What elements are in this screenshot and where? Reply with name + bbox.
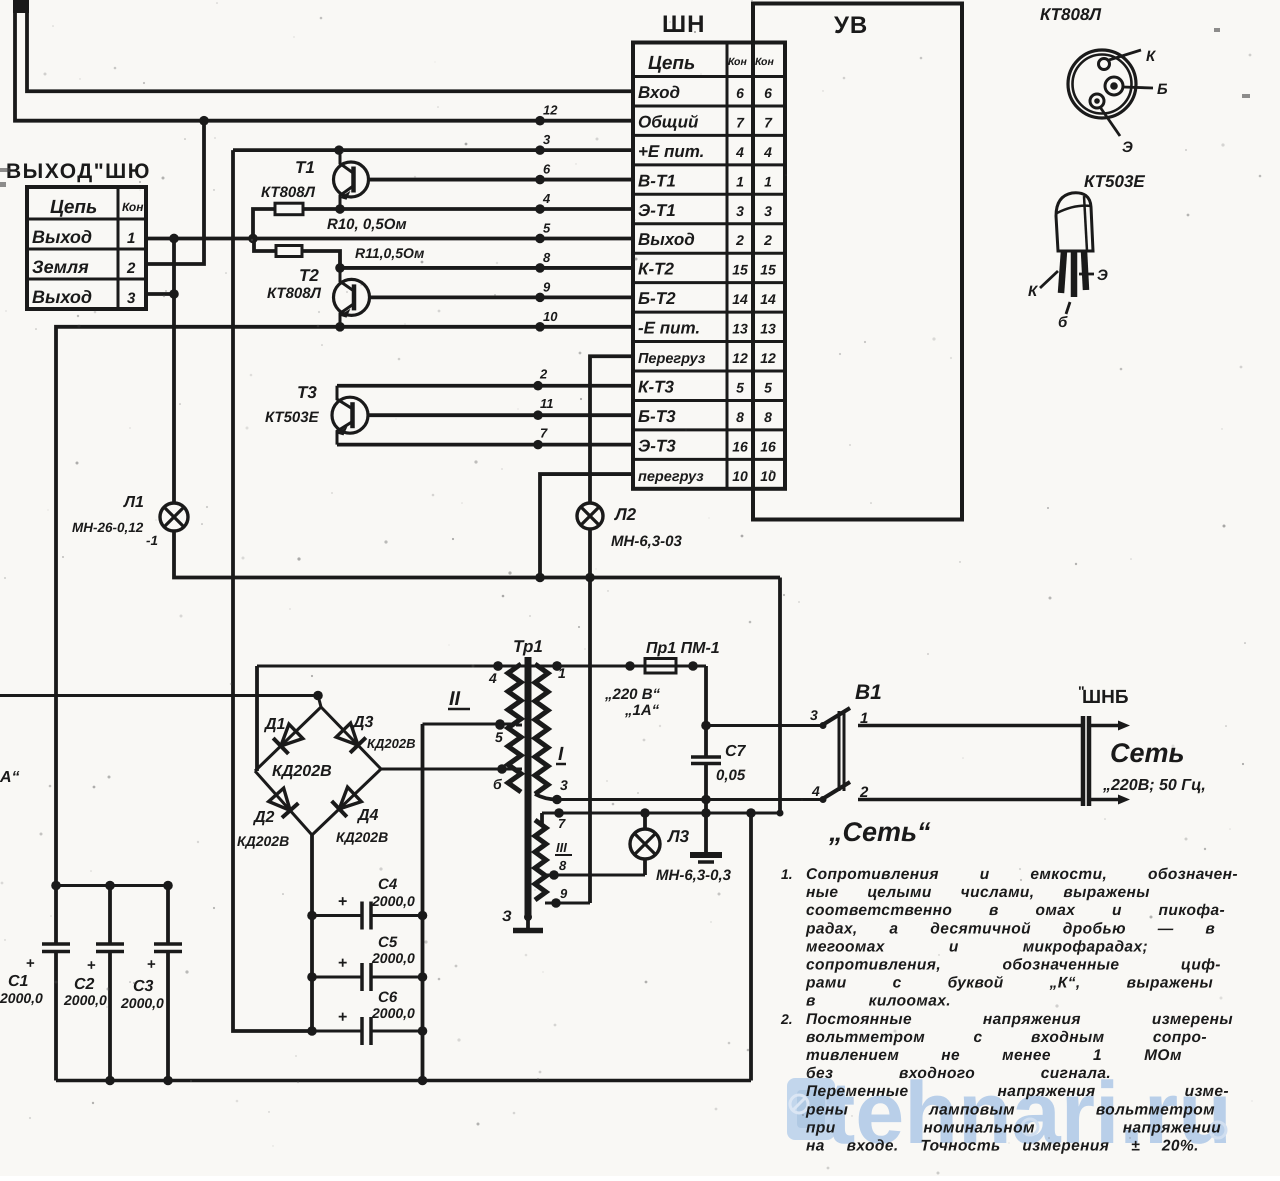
svg-text:8: 8 [764, 409, 772, 425]
svg-text:Э: Э [1097, 267, 1108, 284]
svg-text:Выход: Выход [32, 227, 92, 247]
svg-text:З: З [502, 908, 512, 925]
svg-text:9: 9 [543, 279, 551, 294]
svg-text:4: 4 [735, 144, 744, 160]
svg-text:Общий: Общий [638, 112, 699, 131]
svg-text:„220В; 50 Гц,: „220В; 50 Гц, [1102, 777, 1206, 794]
svg-text:С4: С4 [378, 876, 398, 893]
svg-text:Цепь: Цепь [648, 53, 695, 74]
svg-text:5: 5 [543, 220, 551, 235]
svg-text:Выход: Выход [32, 287, 92, 307]
svg-text:К-Т2: К-Т2 [638, 260, 674, 279]
svg-text:А“: А“ [0, 769, 20, 786]
svg-text:С2: С2 [74, 976, 95, 993]
svg-text:КД202В: КД202В [336, 829, 388, 845]
svg-text:+: + [338, 955, 347, 972]
svg-text:Э: Э [1122, 139, 1133, 156]
svg-text:6: 6 [764, 85, 772, 101]
svg-text:12: 12 [760, 350, 776, 366]
svg-text:I: I [558, 744, 564, 765]
svg-text:„1А“: „1А“ [624, 702, 660, 719]
svg-text:1.: 1. [781, 866, 793, 882]
svg-text:1: 1 [127, 230, 135, 247]
svg-text:Э-Т1: Э-Т1 [638, 201, 676, 220]
svg-text:R11,0,5Ом: R11,0,5Ом [355, 245, 425, 261]
svg-text:2000,0: 2000,0 [371, 950, 415, 966]
svg-text:7: 7 [540, 426, 548, 441]
svg-text:Постоянные напряжения измерены: Постоянные напряжения измерены [806, 1011, 1233, 1028]
svg-text:2.: 2. [780, 1011, 793, 1027]
svg-text:2000,0: 2000,0 [63, 992, 107, 1008]
svg-text:": " [1078, 683, 1085, 699]
svg-text:Кон: Кон [755, 56, 774, 68]
svg-text:3: 3 [736, 203, 744, 219]
svg-text:3: 3 [127, 290, 136, 307]
svg-text:16: 16 [732, 438, 748, 454]
svg-text:Кон: Кон [122, 200, 144, 214]
svg-text:+: + [338, 1009, 347, 1026]
svg-text:Перегруз: Перегруз [638, 351, 706, 367]
svg-text:Э-Т3: Э-Т3 [638, 436, 676, 455]
svg-text:Кон: Кон [728, 56, 747, 68]
svg-text:В-Т1: В-Т1 [638, 171, 676, 190]
svg-text:сопротивления, обозначенные ци: сопротивления, обозначенные циф- [806, 957, 1221, 974]
svg-text:-1: -1 [146, 533, 158, 548]
svg-text:7: 7 [764, 114, 773, 130]
svg-text:КТ503Е: КТ503Е [265, 409, 320, 426]
svg-text:Д2: Д2 [252, 809, 275, 826]
svg-text:КТ808Л: КТ808Л [261, 184, 316, 201]
svg-text:III: III [556, 840, 567, 855]
svg-text:ВЫХОД"ШЮ: ВЫХОД"ШЮ [6, 160, 151, 183]
svg-text:15: 15 [732, 262, 748, 278]
svg-text:4: 4 [488, 670, 497, 686]
svg-text:1: 1 [764, 173, 772, 189]
svg-text:при номинальном напряжении: при номинальном напряжении [806, 1119, 1221, 1136]
svg-text:12: 12 [543, 103, 558, 118]
svg-text:3: 3 [560, 777, 568, 793]
svg-text:14: 14 [760, 291, 776, 307]
svg-text:Д4: Д4 [356, 807, 379, 824]
svg-text:15: 15 [760, 262, 776, 278]
svg-text:Т1: Т1 [295, 158, 315, 177]
svg-text:6: 6 [543, 162, 551, 177]
svg-text:ШН: ШН [662, 11, 705, 38]
svg-text:2000,0: 2000,0 [371, 893, 415, 909]
svg-text:на входе. Точность измерения ±: на входе. Точность измерения ± 20%. [806, 1138, 1199, 1155]
svg-text:2: 2 [539, 367, 548, 382]
svg-text:2: 2 [735, 232, 744, 248]
svg-text:+Е пит.: +Е пит. [638, 142, 704, 161]
svg-text:КД202В: КД202В [237, 833, 289, 849]
svg-text:В1: В1 [855, 681, 882, 704]
svg-text:2000,0: 2000,0 [371, 1005, 415, 1021]
svg-text:8: 8 [559, 858, 567, 873]
svg-text:КТ808Л: КТ808Л [267, 285, 322, 302]
svg-text:2000,0: 2000,0 [120, 995, 164, 1011]
svg-text:перегруз: перегруз [638, 469, 704, 485]
svg-text:Л3: Л3 [666, 827, 690, 846]
svg-text:вольтметром с входным сопро-: вольтметром с входным сопро- [806, 1029, 1207, 1046]
svg-text:2: 2 [126, 260, 136, 277]
svg-text:Переменные напряжения изме-: Переменные напряжения изме- [806, 1083, 1229, 1100]
svg-text:10: 10 [543, 309, 558, 324]
svg-text:5: 5 [495, 729, 503, 745]
svg-text:7: 7 [558, 816, 566, 831]
svg-text:5: 5 [764, 379, 772, 395]
svg-text:12: 12 [732, 350, 748, 366]
svg-text:+: + [26, 955, 35, 972]
svg-text:соответственно в омах и пикофа: соответственно в омах и пикофа- [806, 902, 1225, 919]
svg-text:КД202В: КД202В [367, 736, 415, 751]
svg-text:Выход: Выход [638, 230, 695, 249]
svg-text:3: 3 [764, 203, 772, 219]
svg-text:Б-Т2: Б-Т2 [638, 289, 676, 308]
svg-text:8: 8 [543, 250, 551, 265]
svg-text:5: 5 [736, 379, 744, 395]
svg-text:10: 10 [732, 468, 748, 484]
svg-text:+: + [87, 957, 96, 974]
svg-text:„Сеть“: „Сеть“ [828, 817, 931, 847]
svg-text:С7: С7 [725, 743, 747, 760]
svg-text:16: 16 [760, 438, 776, 454]
svg-text:ные целыми числами, выражены: ные целыми числами, выражены [806, 884, 1150, 901]
svg-text:0,05: 0,05 [716, 767, 746, 784]
svg-text:С6: С6 [378, 989, 398, 1006]
svg-text:Тр1: Тр1 [513, 637, 543, 656]
svg-text:4: 4 [811, 783, 820, 799]
svg-text:+: + [338, 894, 347, 911]
svg-text:Б-Т3: Б-Т3 [638, 407, 676, 426]
svg-text:10: 10 [760, 468, 776, 484]
svg-text:3: 3 [810, 707, 818, 723]
svg-text:С3: С3 [133, 978, 154, 995]
svg-text:13: 13 [760, 321, 776, 337]
svg-text:6: 6 [736, 85, 744, 101]
svg-text:КД202В: КД202В [272, 763, 332, 780]
svg-text:К-Т3: К-Т3 [638, 377, 674, 396]
svg-text:8: 8 [736, 409, 744, 425]
svg-text:11: 11 [540, 396, 554, 411]
svg-text:II: II [449, 688, 461, 710]
svg-text:9: 9 [560, 886, 568, 901]
svg-text:Цепь: Цепь [50, 197, 97, 218]
svg-text:в килоомах.: в килоомах. [806, 993, 951, 1010]
svg-text:С5: С5 [378, 934, 398, 951]
svg-text:1: 1 [736, 173, 744, 189]
svg-text:Земля: Земля [32, 257, 89, 277]
svg-text:-Е пит.: -Е пит. [638, 319, 700, 338]
svg-text:рены ламповым вольтметром: рены ламповым вольтметром [805, 1101, 1215, 1118]
svg-text:тивлением не менее 1 МОм: тивлением не менее 1 МОм [806, 1047, 1182, 1064]
svg-text:б: б [1058, 314, 1068, 331]
svg-text:3: 3 [543, 132, 551, 147]
svg-text:Б: Б [1157, 81, 1168, 98]
svg-text:Т2: Т2 [299, 266, 319, 285]
svg-text:4: 4 [542, 191, 551, 206]
svg-text:ШНБ: ШНБ [1082, 687, 1128, 708]
svg-text:7: 7 [736, 114, 745, 130]
svg-text:МН-6,3-03: МН-6,3-03 [611, 533, 683, 550]
svg-text:радах, а десятичной дробью — в: радах, а десятичной дробью — в [805, 920, 1215, 937]
svg-text:Л2: Л2 [613, 505, 637, 524]
svg-text:2000,0: 2000,0 [0, 990, 43, 1006]
svg-text:Л1: Л1 [123, 494, 144, 511]
svg-text:14: 14 [732, 291, 748, 307]
svg-text:б: б [493, 776, 502, 792]
svg-text:Д1: Д1 [263, 716, 286, 733]
svg-text:„220 В“: „220 В“ [604, 686, 661, 703]
svg-text:R10, 0,5Ом: R10, 0,5Ом [327, 216, 407, 233]
svg-text:С1: С1 [8, 973, 29, 990]
svg-text:2: 2 [763, 232, 772, 248]
svg-text:Сеть: Сеть [1110, 738, 1185, 768]
svg-text:Пр1 ПМ-1: Пр1 ПМ-1 [646, 640, 720, 657]
svg-text:Д3: Д3 [351, 714, 374, 731]
svg-text:13: 13 [732, 321, 748, 337]
svg-text:рами с буквой „К“, выражены: рами с буквой „К“, выражены [805, 975, 1213, 992]
svg-text:КТ503Е: КТ503Е [1084, 172, 1145, 191]
svg-text:мегоомах и микрофарадах;: мегоомах и микрофарадах; [806, 938, 1148, 955]
svg-text:без входного сигнала.: без входного сигнала. [806, 1065, 1111, 1082]
svg-text:1: 1 [558, 665, 566, 681]
svg-text:Т3: Т3 [297, 383, 317, 402]
svg-text:Вход: Вход [638, 83, 680, 102]
svg-text:+: + [147, 956, 156, 973]
svg-text:МН-6,3-0,3: МН-6,3-0,3 [656, 867, 732, 884]
svg-text:УВ: УВ [834, 12, 868, 39]
svg-text:4: 4 [763, 144, 772, 160]
svg-text:КТ808Л: КТ808Л [1040, 5, 1101, 24]
svg-text:МН-26-0,12: МН-26-0,12 [72, 520, 144, 535]
